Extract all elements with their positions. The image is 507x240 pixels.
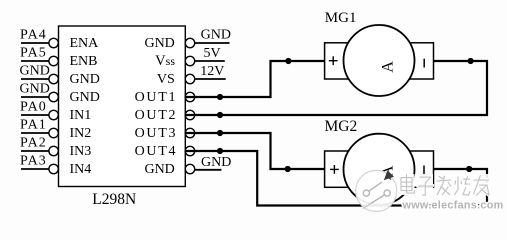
watermark chinese character shao [454, 174, 471, 195]
pin circle ENA (left 1) [49, 38, 58, 47]
svg-text:OUT2: OUT2 [135, 108, 178, 123]
watermark logo circle [356, 170, 397, 211]
svg-text:GND: GND [201, 155, 231, 170]
pin circle Vss (right 2) [185, 56, 194, 65]
pin circle ENB (left 2) [49, 56, 58, 65]
watermark chinese character zi [417, 174, 434, 195]
junction dot OUT4 [217, 148, 223, 154]
svg-text:OUT1: OUT1 [135, 90, 178, 105]
watermark chinese character you [472, 174, 489, 196]
net label GND wire (left 4) [21, 96, 49, 98]
junction dot OUT1 [217, 94, 223, 100]
net label 12V wire [195, 78, 226, 80]
svg-text:OUT4: OUT4 [135, 144, 178, 159]
svg-text:GND: GND [144, 36, 174, 51]
net label PA2 wire [21, 150, 49, 152]
svg-text:IN1: IN1 [70, 108, 92, 123]
net label PA3 wire [21, 168, 49, 170]
svg-text:5V: 5V [204, 46, 221, 61]
pin circle OUT3 (right 6) [185, 128, 194, 137]
svg-text:GND: GND [20, 82, 50, 97]
net label PA5 wire [21, 60, 49, 62]
wire OUT2 to MG1- [185, 61, 487, 115]
chip U1 L298N body [59, 26, 186, 187]
pin circle GND (right 1) [185, 38, 194, 47]
net label GND wire (right 1) [195, 42, 230, 44]
svg-text:www.elecfans.com: www.elecfans.com [402, 199, 504, 211]
svg-text:PA3: PA3 [20, 154, 47, 169]
pin circle IN2 (left 6) [49, 128, 58, 137]
svg-text:12V: 12V [200, 64, 224, 79]
motor MG2 body circle [344, 134, 415, 205]
svg-text:A: A [380, 61, 397, 73]
pin circle GND (left 3) [49, 74, 58, 83]
svg-text:PA0: PA0 [20, 100, 47, 115]
pin circle GND (left 4) [49, 92, 58, 101]
junction dot OUT2 [217, 112, 223, 118]
svg-text:ENB: ENB [70, 54, 98, 69]
wire OUT1 to MG1+ [185, 61, 324, 97]
net label PA1 wire [21, 132, 49, 134]
motor MG1 minus terminal box [406, 43, 434, 79]
svg-text:GND: GND [20, 64, 50, 79]
junction dot MG2 right [466, 166, 472, 172]
motor MG1 body circle [344, 25, 415, 96]
pin circle GND (right 8) [185, 164, 194, 173]
junction dot MG2 left [285, 166, 291, 172]
svg-text:MG1: MG1 [325, 10, 357, 26]
svg-text:VS: VS [157, 72, 175, 87]
svg-text:PA2: PA2 [20, 136, 47, 151]
motor MG2 minus sign (rotated) [423, 166, 425, 176]
pin circle OUT1 (right 4) [185, 92, 194, 101]
net label PA4 wire [21, 42, 49, 44]
motor MG1 plus sign [329, 56, 338, 65]
motor MG2 minus terminal box [406, 151, 434, 187]
motor MG1 minus sign (rotated) [423, 59, 425, 68]
net label GND wire (right 8) [194, 169, 221, 171]
svg-text:GND: GND [201, 27, 231, 42]
svg-text:PA1: PA1 [20, 118, 47, 133]
wire OUT4 to MG2- [185, 151, 487, 206]
junction dot MG1 left [285, 58, 291, 64]
svg-text:PA4: PA4 [20, 28, 47, 43]
motor MG2 plus sign [330, 165, 339, 174]
pin circle VS (right 3) [185, 74, 194, 83]
svg-text:GND: GND [144, 162, 174, 177]
pin circle IN1 (left 5) [49, 110, 58, 119]
watermark chinese character dian [399, 174, 415, 196]
svg-text:PA5: PA5 [20, 46, 47, 61]
svg-text:IN3: IN3 [70, 144, 92, 159]
pin circle IN4 (left 8) [49, 164, 58, 173]
net label GND wire (left 3) [21, 78, 49, 80]
svg-text:OUT3: OUT3 [135, 126, 178, 141]
svg-text:Vss: Vss [155, 53, 175, 69]
svg-text:GND: GND [70, 90, 100, 105]
junction dot OUT3 [217, 130, 223, 136]
motor MG1 plus terminal box [325, 43, 352, 79]
junction dot MG1 right [468, 58, 474, 64]
svg-text:IN2: IN2 [70, 126, 92, 141]
pin circle OUT2 (right 5) [185, 110, 194, 119]
svg-text:ENA: ENA [70, 36, 100, 51]
svg-text:GND: GND [70, 72, 100, 87]
svg-text:MG2: MG2 [325, 118, 358, 135]
net label 5V wire [195, 60, 225, 62]
motor MG2 plus terminal box [325, 151, 352, 187]
wire OUT3 to MG2+ [185, 133, 324, 169]
pin circle OUT4 (right 7) [185, 146, 194, 155]
watermark chinese character fa [435, 174, 452, 195]
svg-text:IN4: IN4 [70, 162, 92, 177]
svg-text:L298N: L298N [92, 191, 136, 208]
pin circle IN3 (left 7) [49, 146, 58, 155]
net label PA0 wire [21, 114, 49, 116]
